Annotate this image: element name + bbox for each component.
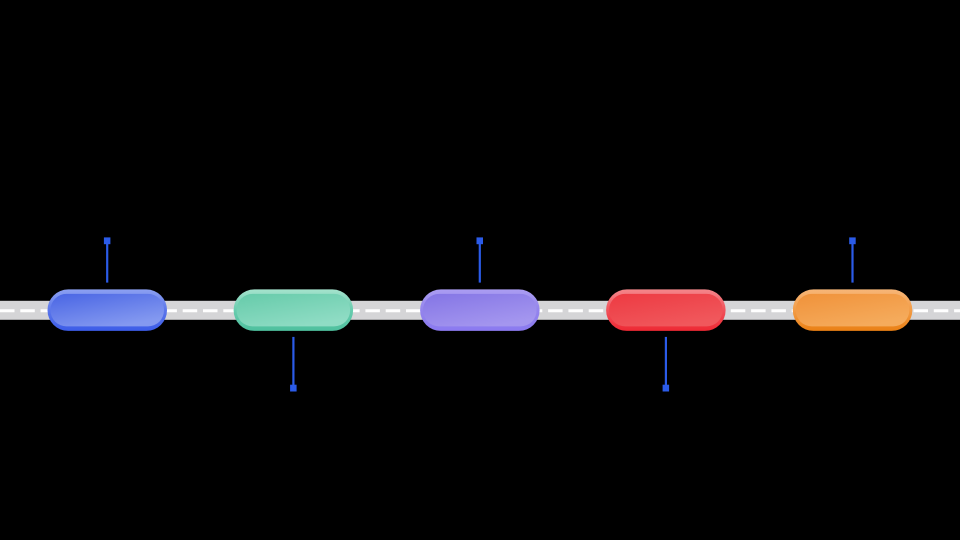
road center dashed line (0, 309, 960, 312)
milestone pill 3 (purple) (420, 289, 539, 331)
milestone pill 1 (blue) (48, 289, 168, 331)
milestone pill 5 (orange) (793, 289, 913, 331)
milestone pill 4 (red) (606, 289, 726, 331)
connector above milestone 3 (477, 237, 484, 282)
road band (0, 301, 960, 320)
milestone pill 2 (green) (234, 289, 354, 331)
connector above milestone 5 (849, 237, 856, 282)
connector below milestone 2 (290, 337, 297, 392)
connector below milestone 4 (663, 337, 670, 392)
connector above milestone 1 (104, 237, 111, 282)
